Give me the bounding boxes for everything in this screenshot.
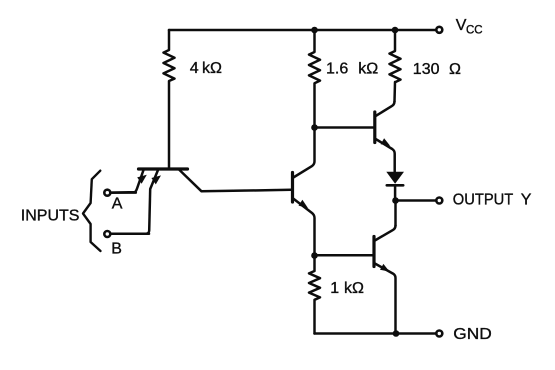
svg-text:GND: GND [453,326,492,343]
resistor R3 130 Ohm [390,30,401,102]
junction node E (Q2 emitter / Q4 base / R4) [311,252,318,259]
junction node rail-R3 [392,27,399,34]
resistor R4 1 kOhm [309,256,320,334]
transistor Q1 emitter 1 [112,170,144,193]
svg-text:130: 130 [413,61,440,78]
svg-text:4: 4 [190,60,199,77]
diode D1 triangle [386,172,404,184]
terminal input B [104,231,110,237]
transistor Q4 collector [374,225,396,241]
terminal GND [436,331,442,337]
wire input A [112,191,136,194]
transistor Q1 emitter 2 [112,170,158,234]
wire Vcc rail [169,29,435,32]
arrow Q2 emitter [299,200,309,208]
junction node output [392,197,399,204]
transistor Q2 base bar [291,173,294,203]
wire diode to output node [394,185,397,200]
transistor Q2 collector [293,128,315,179]
arrow Q1 emitter 2 [151,175,161,184]
arrow Q3 emitter [381,138,391,146]
wire output node to Q4 collector [394,201,397,226]
svg-text:kΩ: kΩ [358,61,378,78]
wire output [396,199,436,202]
svg-text:A: A [112,196,123,213]
wire node C to Q3 base [315,126,374,129]
terminal input A [104,190,110,196]
svg-text:kΩ: kΩ [202,60,222,77]
svg-text:OUTPUT: OUTPUT [453,192,514,209]
transistor Q3 emitter [375,139,395,172]
junction node rail-R2 [311,27,318,34]
svg-text:B: B [111,241,122,258]
diode D1 cathode bar [387,184,403,187]
transistor Q3 collector [375,101,395,116]
transistor Q4 base bar [372,237,375,267]
terminal output Y [436,198,442,204]
svg-text:kΩ: kΩ [344,280,364,297]
arrow Q4 emitter [380,264,390,272]
junction node ground [393,330,400,337]
svg-text:INPUTS: INPUTS [21,208,80,225]
svg-text:1: 1 [330,280,339,297]
transistor Q2 emitter [293,198,315,256]
wire Q4 base [315,254,374,257]
wire ground rail [315,332,436,335]
wire input B [112,233,149,236]
svg-text:1.6: 1.6 [326,61,348,78]
transistor Q1 base bar [139,167,188,170]
resistor R1 4 kOhm [164,30,175,168]
transistor Q4 emitter [374,263,396,334]
terminal Vcc [436,27,442,33]
transistor Q1 collector [180,170,292,191]
arrow Q1 emitter 1 [137,175,147,184]
svg-text:Ω: Ω [449,61,461,78]
junction node C (R2 bottom / Q3 base) [311,124,318,131]
resistor R2 1.6 kOhm [309,30,320,128]
transistor Q3 base bar [373,112,376,143]
svg-text:CC: CC [466,25,483,37]
brace inputs [83,171,101,251]
svg-text:Y: Y [521,192,532,209]
